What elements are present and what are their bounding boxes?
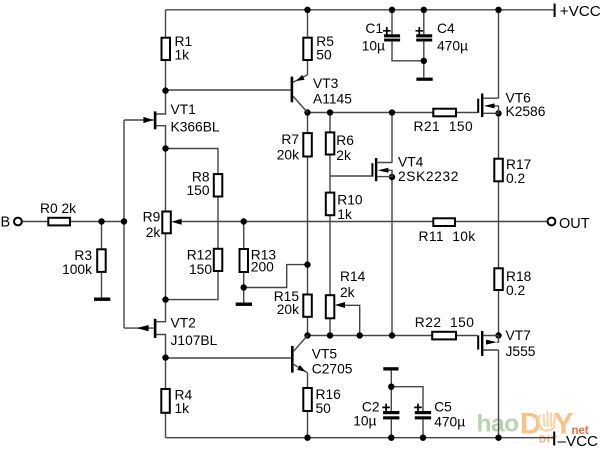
wire node B to R9 top	[165, 149, 167, 212]
transistor VT5	[291, 336, 308, 373]
wire R10 bottom to R14 top	[329, 215, 331, 295]
wire bottom rail -VCC	[166, 437, 555, 439]
wire node H to R7 top	[307, 113, 309, 134]
wire R5 bottom to VT3 emitter	[307, 60, 309, 75]
node E	[241, 218, 247, 224]
resistor R6	[326, 132, 335, 154]
svg-text:10µ: 10µ	[362, 39, 385, 54]
grounds	[94, 78, 433, 371]
svg-text:R10: R10	[337, 193, 363, 208]
wire R11 to OUT terminal	[455, 221, 548, 223]
resistors	[48, 38, 503, 413]
node VT7 source	[495, 332, 501, 338]
svg-text:1k: 1k	[175, 401, 190, 416]
svg-text:+VCC: +VCC	[560, 3, 600, 20]
wire VT1 gate lead	[124, 119, 154, 121]
svg-text:R18: R18	[506, 269, 532, 284]
resistor R22	[432, 332, 456, 340]
ground C1 C4	[416, 78, 432, 81]
capacitor C2	[383, 411, 399, 414]
node C	[162, 296, 168, 302]
svg-text:hao: hao	[477, 411, 520, 438]
node F	[241, 284, 247, 290]
wire VT7 drain to bottom rail	[498, 350, 500, 438]
svg-text:OUT: OUT	[559, 216, 590, 232]
terminal bar +VCC	[554, 4, 556, 18]
svg-text:R7: R7	[281, 132, 299, 147]
C5 plus sign	[414, 404, 422, 412]
svg-text:R6: R6	[336, 133, 354, 148]
R9 wiper arrow	[171, 219, 181, 225]
wire C4 bottom to node L	[423, 42, 425, 61]
svg-text:20k: 20k	[277, 148, 299, 163]
wire node E to R13 top	[243, 222, 245, 250]
svg-text:K366BL: K366BL	[171, 120, 220, 135]
node J2	[327, 332, 333, 338]
svg-text:R1: R1	[175, 34, 193, 49]
svg-text:–VCC: –VCC	[558, 433, 599, 450]
wire top rail to C1	[391, 10, 393, 35]
svg-text:50: 50	[316, 48, 332, 63]
wire feedback line VT1 gate to VT2 gate	[123, 120, 125, 328]
wire R8 bottom to R12 top	[217, 197, 219, 249]
svg-text:10µ: 10µ	[353, 413, 376, 428]
svg-text:J107BL: J107BL	[171, 333, 218, 348]
node rail-R5	[304, 7, 310, 13]
resistor R8	[214, 174, 223, 196]
wire top rail to R5	[307, 10, 309, 38]
svg-text:R22 150: R22 150	[415, 315, 475, 330]
svg-text:J555: J555	[506, 344, 536, 359]
node G	[304, 261, 310, 267]
svg-text:R21 150: R21 150	[414, 119, 474, 134]
node rail-VT6	[495, 7, 501, 13]
wire upper ground bar to node M	[390, 371, 392, 387]
wire top rail to C4	[423, 10, 425, 35]
svg-text:A1145: A1145	[313, 92, 352, 107]
node J3	[357, 332, 363, 338]
wire node C to VT2 drain	[155, 300, 166, 322]
node input-R3	[98, 218, 104, 224]
wire node M to C2	[390, 387, 392, 411]
wire node H to R6 top	[329, 113, 331, 133]
node input-feedback	[121, 218, 127, 224]
resistor R10	[326, 193, 335, 216]
svg-text:VT1: VT1	[171, 102, 196, 117]
ground C2 C5 (up)	[383, 367, 398, 370]
wire R6 bottom to node K	[329, 155, 331, 177]
svg-text:2SK2232: 2SK2232	[398, 169, 459, 184]
wire VT6 source to R17 top	[498, 113, 500, 158]
wire R14 bottom to node J row	[329, 318, 331, 335]
capacitor C5	[415, 411, 431, 414]
wire node D to VT5 base	[166, 357, 292, 359]
C1 plus sign	[383, 27, 391, 35]
transistor VT2	[137, 319, 157, 338]
resistor R18	[494, 268, 503, 290]
wire R4 bottom to bottom rail	[165, 413, 167, 438]
transistor VT3	[291, 75, 308, 113]
node L	[421, 58, 427, 64]
watermark haoDIY.net	[477, 408, 589, 446]
resistor R0	[48, 218, 70, 226]
node H1	[304, 109, 310, 115]
svg-text:VT7: VT7	[506, 328, 531, 343]
wire VT2 source to node D	[155, 335, 166, 358]
node rail-VT7	[495, 435, 501, 441]
wire node L to ground	[423, 61, 425, 78]
wire VT1 source to node B	[155, 126, 166, 149]
svg-text:VT2: VT2	[171, 316, 196, 331]
node rail-C5	[420, 435, 426, 441]
wire VT5 emitter to R16 top	[307, 373, 309, 388]
svg-text:200: 200	[251, 260, 274, 275]
wire R0 to feedback node	[70, 221, 124, 223]
resistor R7	[303, 133, 312, 156]
resistor R17	[494, 159, 503, 182]
resistor R15	[303, 295, 312, 317]
node D	[162, 354, 168, 360]
wire node F to ground	[243, 288, 245, 303]
wire top rail to VT6 drain	[498, 10, 500, 98]
resistor R16	[303, 388, 312, 411]
node VT6 source	[495, 110, 501, 116]
svg-text:R17: R17	[506, 157, 531, 172]
resistor R1	[162, 38, 171, 60]
node VT4 source	[389, 174, 395, 180]
svg-text:R9: R9	[143, 210, 161, 225]
potentiometer arrows	[171, 219, 345, 308]
transistor VT1	[143, 111, 156, 129]
svg-text:C4: C4	[437, 21, 455, 36]
capacitor C1	[384, 34, 400, 37]
wire input node to R3 top	[101, 222, 103, 250]
wire node B to R8 top	[166, 149, 219, 175]
wire R12 bottom to node C	[166, 271, 219, 300]
transistor VT6	[477, 94, 498, 118]
svg-text:C2: C2	[362, 400, 380, 415]
svg-text:C1: C1	[365, 21, 383, 36]
wire R15 bottom to node J	[307, 317, 309, 336]
svg-text:20k: 20k	[277, 302, 299, 317]
svg-text:150: 150	[189, 262, 212, 277]
svg-text:VT4: VT4	[398, 154, 424, 169]
wire VT4 drain to node H row	[391, 113, 393, 163]
wire node D to R4 top	[165, 358, 167, 389]
wire VT3 collector node to R21 row	[308, 112, 434, 114]
node rail-C2	[388, 435, 394, 441]
wire R1 bottom to node A	[165, 60, 167, 91]
wire node J row to R22	[308, 335, 433, 337]
resistor R9	[162, 212, 171, 234]
node J1	[304, 332, 310, 338]
node B	[162, 145, 168, 151]
svg-text:DIY: DIY	[539, 435, 558, 446]
svg-text:R14: R14	[340, 269, 366, 284]
svg-text:VT3: VT3	[313, 76, 339, 91]
svg-text:2k: 2k	[336, 148, 351, 163]
svg-text:R12: R12	[187, 247, 212, 262]
wire node F step to node G	[244, 265, 308, 288]
wire R17 bottom to R18 top	[498, 181, 500, 268]
C2 plus sign	[382, 404, 390, 412]
node rail-C4	[421, 7, 427, 13]
resistor R3	[97, 249, 106, 272]
node J4	[389, 332, 395, 338]
capacitors	[383, 34, 432, 419]
svg-text:470µ: 470µ	[434, 414, 465, 429]
wire R3 bottom to ground	[101, 272, 103, 298]
transistor VT7	[477, 331, 498, 356]
node A	[162, 87, 168, 93]
svg-text:R5: R5	[316, 34, 334, 49]
wire VT4 source column to node J row	[391, 177, 393, 336]
wire R22 to VT7 gate	[456, 335, 477, 337]
svg-text:C2705: C2705	[312, 361, 353, 376]
svg-text:0.2: 0.2	[506, 171, 525, 186]
svg-text:R11 10k: R11 10k	[419, 229, 476, 244]
resistor R12	[214, 249, 223, 271]
wire node E to R11	[244, 221, 434, 223]
svg-text:2k: 2k	[340, 285, 355, 300]
wire node K to R10 top	[329, 176, 331, 193]
svg-text:470µ: 470µ	[437, 39, 468, 54]
ground R13	[236, 303, 252, 306]
wire VT2 gate lead	[124, 327, 154, 329]
wire R16 bottom to bottom rail	[307, 411, 309, 438]
wire R14 wiper to node J row	[344, 305, 360, 335]
resistor R14	[326, 295, 335, 318]
svg-text:100k: 100k	[62, 262, 92, 277]
terminal OUT	[548, 218, 556, 226]
wire node M to C5 top	[391, 387, 423, 411]
wire R7 bottom to node G	[307, 157, 309, 265]
wire C5 bottom to bottom rail	[422, 419, 424, 437]
wire top rail +VCC	[166, 9, 555, 11]
svg-text:K2586: K2586	[506, 104, 546, 119]
wire top rail to R1	[165, 10, 167, 38]
resistor R5	[303, 38, 312, 60]
node M	[388, 384, 394, 390]
wire R9 bottom to node C	[165, 233, 167, 299]
wire R9 wiper to node E	[179, 221, 244, 223]
wire R18 bottom to VT7 source	[498, 290, 500, 336]
resistor R4	[161, 389, 170, 413]
wire node A to VT3 base	[166, 89, 291, 91]
wire node A to VT1 drain	[155, 91, 166, 114]
transistor VT4	[371, 158, 392, 181]
node rail-R16	[304, 435, 310, 441]
resistor R13	[240, 249, 249, 272]
svg-text:B: B	[1, 214, 11, 230]
wire C2 bottom to bottom rail	[390, 419, 392, 437]
C4 plus sign	[416, 27, 424, 35]
wire node G to R15 top	[307, 265, 309, 295]
ground R3	[94, 298, 110, 301]
svg-text:R0 2k: R0 2k	[40, 201, 76, 216]
svg-text:50: 50	[316, 401, 332, 416]
svg-text:VT5: VT5	[312, 346, 338, 361]
svg-text:2k: 2k	[146, 225, 161, 240]
svg-text:1k: 1k	[337, 207, 352, 222]
wire R21 to VT6 gate	[456, 112, 477, 114]
wire C1 bottom to node L	[392, 42, 424, 61]
capacitor C4	[416, 34, 432, 37]
svg-text:R3: R3	[74, 248, 92, 263]
node H2	[327, 109, 333, 115]
svg-text:C5: C5	[434, 400, 452, 415]
svg-text:1k: 1k	[175, 48, 190, 63]
R14 wiper arrow	[335, 302, 345, 308]
node H3	[389, 109, 395, 115]
svg-text:150: 150	[186, 183, 209, 198]
terminal bar -VCC	[553, 432, 555, 446]
wire B terminal to R0	[22, 221, 48, 223]
terminal B	[14, 218, 22, 226]
wire node K to VT4 gate	[330, 175, 371, 177]
wire R13 bottom to node F	[243, 272, 245, 288]
resistor R21	[433, 109, 456, 117]
resistor R11	[433, 218, 455, 226]
svg-text:0.2: 0.2	[506, 283, 525, 298]
node rail-C1	[389, 7, 395, 13]
